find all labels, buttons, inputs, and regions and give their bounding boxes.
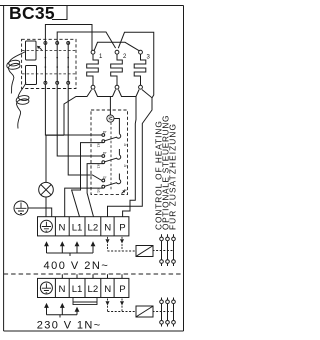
- contactor 2 coil: [136, 306, 153, 317]
- switch row 2: [57, 84, 102, 156]
- frame top border: [0, 5, 184, 7]
- wire M feed: [109, 97, 111, 116]
- heating element 1: [91, 50, 95, 54]
- optional outputs 400V dashed: [107, 237, 109, 247]
- row3 output wire: [65, 188, 104, 217]
- contact column K1: [44, 42, 46, 84]
- earth symbol E1: [14, 201, 28, 215]
- svg-text:L2: L2: [88, 284, 99, 295]
- svg-text:230 V 1N~: 230 V 1N~: [37, 320, 102, 332]
- earth wire to block: [28, 208, 52, 217]
- svg-text:L1: L1: [72, 222, 83, 233]
- heating element 3: [139, 50, 143, 54]
- earth terminal symbol 400V: [40, 220, 52, 232]
- frame bottom border: [4, 330, 184, 332]
- svg-text:2: 2: [123, 54, 127, 60]
- svg-text:400 V 2N~: 400 V 2N~: [44, 260, 110, 272]
- switch row 3: [68, 84, 102, 180]
- wire W1 down: [123, 97, 136, 217]
- neutral dip 2-3: [118, 90, 139, 97]
- contact column K3: [67, 42, 69, 84]
- row1 output wire: [72, 143, 104, 217]
- relay linkage dashed 1: [22, 50, 76, 52]
- title notch underline: [52, 6, 67, 20]
- svg-text:N: N: [59, 222, 66, 233]
- supply arrows 400V: [44, 241, 95, 246]
- frame right border: [183, 6, 185, 332]
- supply arrows 230V: [44, 303, 79, 312]
- wire W2 down: [108, 90, 153, 217]
- svg-text:L2: L2: [88, 222, 99, 233]
- svg-text:M: M: [107, 116, 113, 120]
- side caption rotated: [153, 115, 177, 230]
- wire branch to element 3: [94, 42, 139, 51]
- row2 output wire: [87, 164, 103, 217]
- svg-text:3: 3: [147, 55, 151, 61]
- optional outputs 230V dashed: [108, 299, 137, 312]
- contact column K2: [56, 42, 58, 84]
- svg-text:a1: a1: [97, 143, 102, 148]
- svg-text:BC35: BC35: [9, 3, 55, 23]
- contactor 1 coil: [136, 246, 153, 257]
- svg-text:N: N: [59, 284, 66, 295]
- svg-text:N: N: [104, 222, 111, 233]
- switch gang dashed link: [110, 122, 112, 190]
- neutral dip 1-2: [94, 90, 115, 97]
- svg-text:P: P: [119, 222, 125, 233]
- svg-text:a1: a1: [97, 189, 102, 194]
- contactor 1 contacts: [160, 234, 176, 266]
- frame left border: [3, 6, 5, 332]
- svg-text:FÜR ZUSATZHEIZUNG: FÜR ZUSATZHEIZUNG: [167, 123, 177, 230]
- contactor 2 dashed link: [153, 311, 175, 313]
- neutral dip element1 left: [64, 90, 92, 136]
- svg-text:N: N: [104, 284, 111, 295]
- box actuator arrow: [122, 191, 125, 194]
- capillary squiggle S1: [7, 52, 26, 94]
- contactor 2 contacts: [160, 298, 176, 327]
- stub wires above 230V block: [62, 274, 122, 278]
- svg-text:P: P: [119, 284, 125, 295]
- svg-text:L1: L1: [72, 284, 83, 295]
- wire M out: [114, 119, 120, 129]
- switch row 1: [45, 84, 102, 135]
- lamp H1: [45, 135, 64, 182]
- contactor 1 dashed link: [153, 250, 175, 252]
- relay linkage dashed 2: [22, 73, 76, 75]
- relay box (dashed): [22, 39, 76, 88]
- svg-text:a1: a1: [97, 164, 102, 169]
- heating element 2: [115, 50, 119, 54]
- motor M: [107, 115, 114, 122]
- switch box (dashed): [91, 110, 128, 195]
- wire K1 to element 1: [45, 25, 92, 51]
- wire W3 riser to element 2: [118, 32, 153, 98]
- wire K2 to element 2: [57, 32, 115, 48]
- jumper L1-L2: [73, 298, 97, 305]
- terminal block 230V: [38, 278, 129, 297]
- capillary squiggle S2: [16, 83, 29, 129]
- section separator dashed: [4, 273, 184, 275]
- terminal block 400V: [38, 217, 129, 236]
- thermostat T2: [26, 66, 37, 85]
- lamp to block wire: [45, 197, 47, 217]
- actuator arrow T1: [39, 47, 42, 50]
- thermostat T1: [26, 41, 37, 60]
- svg-text:1: 1: [99, 54, 103, 60]
- earth terminal symbol 230V: [40, 282, 52, 294]
